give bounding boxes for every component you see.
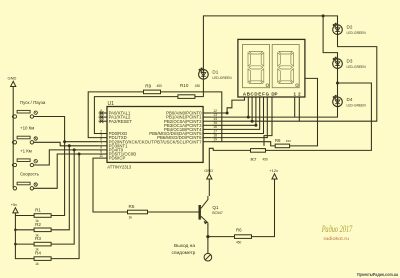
pin 6 PD2/INT0/XCK/CKOUT bbox=[99, 141, 107, 143]
pin 13 PB1/AIN1/PCINT1 bbox=[203, 116, 211, 118]
wire PB2 row across to pin2/D3 bbox=[211, 120, 299, 122]
wire R1 to PD2 row bbox=[51, 142, 65, 216]
pin 19 PB7/USCK/SCL/PCINT7 bbox=[203, 141, 211, 143]
transistor Q1 BC547 bbox=[199, 205, 201, 220]
svg-text:R7: R7 bbox=[251, 157, 257, 162]
svg-text:B: B bbox=[247, 91, 250, 96]
output terminal (to speedometer) bbox=[204, 253, 212, 261]
svg-text:PB7/USCK/SCL/PCINT7: PB7/USCK/SCL/PCINT7 bbox=[154, 139, 202, 144]
LED D3 bbox=[337, 59, 339, 69]
pin 3 PD1/TXD bbox=[99, 137, 107, 139]
wire top rail branch down to D3 bbox=[323, 16, 337, 59]
svg-text:450: 450 bbox=[157, 84, 163, 88]
LED D4 bbox=[337, 97, 339, 107]
wire R9 right drop bbox=[161, 92, 222, 142]
pin 17 PB5/MISO/DI/SDA/PCINT5 bbox=[203, 133, 211, 135]
pin 18 PB6/MISO/DO/PCINT6 bbox=[203, 137, 211, 139]
wire pin B to PB1 row bbox=[247, 97, 249, 117]
svg-text:BC547: BC547 bbox=[212, 211, 222, 215]
wire Q1 emitter down bbox=[207, 224, 209, 253]
wire R6 to +12v bbox=[252, 179, 275, 237]
wire R2 to PD3 row bbox=[51, 146, 69, 230]
LED D1 bbox=[202, 70, 204, 80]
resistor R8 450 bbox=[275, 144, 289, 148]
wire emitter node to R6 bbox=[208, 236, 235, 238]
wire D3 bottom junction to D4 top bbox=[337, 69, 339, 97]
resistor R4 1k bbox=[34, 257, 51, 261]
wire pin E to PB4 bbox=[211, 97, 260, 129]
svg-text:radiokot.ru: radiokot.ru bbox=[324, 236, 350, 241]
digit 1 box bbox=[243, 45, 270, 88]
wire GND down to Q1 collector bbox=[208, 179, 210, 196]
svg-text:ATTINY2313: ATTINY2313 bbox=[107, 164, 132, 169]
svg-text:R5: R5 bbox=[129, 204, 135, 209]
svg-text:E: E bbox=[258, 91, 261, 96]
svg-text:спидометр: спидометр bbox=[172, 251, 196, 256]
svg-text:DP: DP bbox=[271, 91, 277, 96]
svg-text:Q1: Q1 bbox=[212, 205, 219, 210]
resistor R5 1k bbox=[128, 210, 148, 214]
svg-text:Выход на: Выход на bbox=[174, 243, 195, 249]
svg-text:450: 450 bbox=[263, 157, 269, 161]
pin 12 PB0/AIN0/PCINT0 bbox=[203, 112, 211, 114]
svg-text:1k: 1k bbox=[129, 216, 133, 220]
resistor R1 1k bbox=[34, 214, 51, 218]
wire GND up to R7 bbox=[209, 148, 250, 174]
svg-text:LED-GREEN: LED-GREEN bbox=[212, 76, 232, 80]
wire button4 to PD5 row bbox=[34, 154, 99, 188]
wire pin C to PB2 row bbox=[251, 97, 253, 121]
wire R8 right to display right edge bbox=[290, 78, 318, 145]
digit 2 box bbox=[272, 45, 299, 88]
wire rail to resistor bbox=[15, 243, 34, 245]
wire PD2 row bbox=[65, 141, 99, 143]
pin 1 PA2/RESET bbox=[99, 120, 107, 122]
resistor R10 450 bbox=[178, 95, 195, 99]
wire pin A to PB0 bbox=[211, 97, 244, 113]
7-segment display box bbox=[238, 39, 305, 97]
svg-text:R2: R2 bbox=[35, 222, 41, 227]
pin 9 PD5/T1/OC0B bbox=[99, 153, 107, 155]
wire R10 left to PD0 bbox=[94, 97, 177, 134]
wire pin DP to R8 net bbox=[264, 97, 272, 146]
wire pin F to PB5 bbox=[211, 97, 263, 134]
wire D1 up and top rail to D2 bbox=[203, 16, 337, 69]
svg-text:LED-GREEN: LED-GREEN bbox=[347, 65, 367, 69]
digit 2 segments bbox=[279, 51, 292, 54]
svg-text:G: G bbox=[266, 91, 270, 96]
wire R5 to Q1 base bbox=[148, 211, 199, 213]
svg-text:LED-GREEN: LED-GREEN bbox=[347, 31, 367, 35]
svg-text:+10 Км: +10 Км bbox=[20, 126, 34, 131]
svg-text:R6: R6 bbox=[236, 228, 242, 233]
svg-text:R9: R9 bbox=[145, 83, 151, 88]
svg-text:R3: R3 bbox=[35, 236, 41, 241]
svg-text:LED-GREEN: LED-GREEN bbox=[347, 103, 367, 107]
svg-text:ПроектыРадио.com.ua: ПроектыРадио.com.ua bbox=[357, 272, 398, 277]
svg-text:Скорость: Скорость bbox=[20, 172, 40, 177]
svg-text:PD6/ICP: PD6/ICP bbox=[109, 156, 126, 161]
wire PB7 row to R8 bbox=[211, 142, 275, 146]
svg-text:Радио 2017: Радио 2017 bbox=[321, 224, 353, 234]
wire rail to resistor bbox=[15, 229, 34, 231]
pin 5 PA0/XTAL1 bbox=[99, 112, 107, 114]
LED D2 bbox=[337, 25, 339, 35]
svg-text:11: 11 bbox=[99, 154, 103, 158]
resistor R3 1k bbox=[34, 242, 51, 246]
wire D2 bottom to pin2 row bbox=[299, 35, 377, 121]
svg-text:R1: R1 bbox=[35, 208, 41, 213]
svg-text:GND: GND bbox=[8, 76, 17, 81]
svg-text:1k: 1k bbox=[35, 262, 39, 266]
wire R10 right to D1 bbox=[195, 80, 204, 97]
pin 7 PD3/INT1 bbox=[99, 145, 107, 147]
svg-text:Пуск / Пауза: Пуск / Пауза bbox=[20, 100, 46, 105]
pin 16 PB4/OC1B/PCINT4 bbox=[203, 128, 211, 130]
pin 14 PB2/OC0A/PCINT2 bbox=[203, 120, 211, 122]
wire D3/D4 node to R7 bbox=[266, 83, 372, 150]
op IC U1 ATTINY2313 box bbox=[107, 107, 203, 163]
svg-text:D1: D1 bbox=[212, 69, 218, 74]
svg-text:450: 450 bbox=[286, 139, 291, 143]
svg-text:R4: R4 bbox=[35, 251, 41, 256]
svg-text:D3: D3 bbox=[347, 59, 353, 64]
wire pin G to PB6 bbox=[211, 97, 267, 138]
svg-text:R10: R10 bbox=[180, 83, 189, 88]
svg-text:PA2/RESET: PA2/RESET bbox=[109, 119, 133, 124]
svg-text:D: D bbox=[254, 91, 257, 96]
svg-text:+5v: +5v bbox=[11, 202, 18, 207]
wire GND rail down the buttons bbox=[12, 87, 14, 189]
wire +5v rail bbox=[15, 213, 34, 259]
pin 4 PA1/XTAL2 bbox=[99, 116, 107, 118]
digit 1 segments bbox=[249, 51, 262, 54]
pin 15 PB3/OC1A/PCINT3 bbox=[203, 124, 211, 126]
svg-text:U1: U1 bbox=[108, 101, 115, 107]
svg-text:R8: R8 bbox=[275, 138, 281, 143]
wire R4 to PD5 row bbox=[51, 154, 79, 259]
svg-text:D2: D2 bbox=[347, 25, 353, 30]
svg-text:+12v: +12v bbox=[269, 168, 278, 173]
wire PB1 row across to pin1/D4 bbox=[211, 116, 295, 118]
wire R9 left to PD1 bbox=[88, 92, 143, 138]
svg-text:+1 Км: +1 Км bbox=[20, 148, 32, 153]
pin 8 PD4/T0 bbox=[99, 149, 107, 151]
svg-text:450: 450 bbox=[236, 240, 242, 244]
wire pin D to PB3 bbox=[211, 97, 256, 125]
wire R3 to PD4 row bbox=[51, 150, 74, 244]
wire PD6 to R5 bbox=[93, 158, 128, 212]
pin 11 PD6/ICP bbox=[99, 157, 107, 159]
svg-text:D4: D4 bbox=[347, 97, 353, 102]
wire button1 to PD2 row bbox=[34, 117, 65, 142]
wire button3 to PD4 row bbox=[34, 150, 99, 165]
pin 2 PD0/RXD bbox=[99, 133, 107, 135]
wire rail to resistor bbox=[15, 215, 34, 217]
wire button2 to PD3 row bbox=[34, 142, 99, 146]
resistor R2 1k bbox=[34, 228, 51, 232]
wire D4 bottom to pin1 row bbox=[295, 97, 338, 117]
svg-text:450: 450 bbox=[195, 84, 201, 88]
resistor R9 450 bbox=[144, 90, 161, 94]
resistor R6 450 bbox=[235, 235, 252, 239]
resistor R7 450 bbox=[251, 149, 266, 153]
